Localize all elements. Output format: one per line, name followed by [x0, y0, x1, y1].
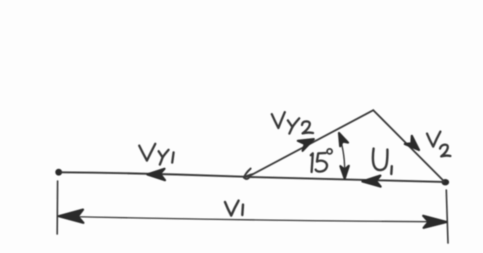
- arrowhead V_Y1 (points left): [147, 169, 165, 180]
- junction loop: [244, 178, 249, 179]
- angle arc 15 degrees: [339, 136, 344, 177]
- junction scribble arrow at middle node: [244, 169, 253, 178]
- wire base line right segment (U_1): [249, 177, 444, 182]
- arrowhead V_1 left (points left): [59, 210, 84, 223]
- arrowhead arc top (points up toward slant): [339, 133, 348, 146]
- wire base line left segment (V_Y1): [62, 172, 248, 177]
- label U_1: [373, 149, 392, 174]
- arrowhead U_1 (points left on base): [362, 176, 380, 187]
- arrowhead V_2 (points down-right): [405, 136, 419, 150]
- label 15 degrees: [311, 149, 332, 172]
- label V_Y1: [139, 144, 173, 165]
- tick right (below right node): [446, 190, 448, 243]
- tick left (below left node): [56, 181, 58, 234]
- arrowhead arc bottom (points down to base): [340, 166, 348, 179]
- arrowhead V_Y2 (points up-right): [298, 139, 314, 151]
- label V_Y2: [272, 112, 313, 133]
- label V_2: [427, 132, 450, 157]
- wire slant V_Y2 line: [249, 110, 374, 176]
- node left (dot): [55, 169, 62, 176]
- wire V_1 dimension line: [60, 216, 445, 221]
- node right (dot): [442, 179, 450, 185]
- arrowhead V_1 right (points right): [423, 216, 446, 228]
- wire V_2 line: [373, 110, 443, 181]
- label V_1: [225, 201, 243, 216]
